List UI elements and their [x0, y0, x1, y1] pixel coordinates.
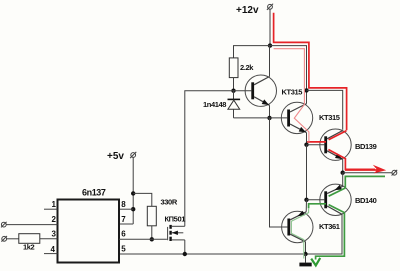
svg-text:1: 1 — [52, 200, 57, 209]
node Q1 emitter junction — [267, 116, 271, 120]
svg-text:KT315: KT315 — [282, 88, 303, 97]
node 330R to gate wire — [150, 237, 154, 241]
terminal +5v — [130, 152, 136, 158]
wire 330R bottom — [151, 226, 153, 240]
resistor R3 1k2 — [19, 234, 40, 244]
svg-text:2.2k: 2.2k — [240, 63, 254, 72]
wire drain vertical — [185, 91, 234, 227]
transistor Q3 BD139 — [320, 129, 351, 160]
wire BD139 emitter down — [342, 159, 344, 172]
svg-text:КП501: КП501 — [165, 215, 186, 224]
resistor R2 330R — [147, 206, 156, 226]
resistor R1 2.2k — [229, 58, 238, 78]
svg-text:330R: 330R — [161, 198, 178, 207]
node base junction — [231, 89, 235, 93]
wire to 330R top — [133, 193, 152, 206]
svg-text:+12v: +12v — [236, 5, 259, 16]
wire pin8 stub — [119, 208, 133, 210]
wire Q1 emitter down — [269, 105, 271, 118]
wire BD140 collector down to rail — [119, 214, 342, 254]
wire emitter row to Q2 base — [234, 117, 288, 119]
wire input B to 1k2 — [7, 238, 19, 240]
svg-text:KT315: KT315 — [319, 113, 340, 122]
svg-text:3: 3 — [52, 230, 57, 239]
svg-text:6: 6 — [121, 230, 126, 239]
svg-text:6n137: 6n137 — [82, 188, 106, 198]
terminal input A — [1, 222, 7, 228]
svg-text:+5v: +5v — [107, 151, 124, 162]
wire +12v rail left to 2.2k — [234, 46, 271, 58]
transistor Q4 BD140 — [320, 184, 351, 215]
wire base to BD139 — [307, 144, 325, 146]
arrow red output — [345, 165, 386, 174]
wire red current path thin via Q2 — [274, 49, 309, 142]
wire +5v down — [132, 157, 134, 224]
svg-text:BD139: BD139 — [355, 142, 377, 151]
node BD139 base junction — [304, 143, 308, 147]
node Q2 collector junction — [304, 88, 308, 92]
svg-text:5: 5 — [121, 245, 126, 254]
wire 2.2k bottom to base node — [233, 78, 235, 91]
node +5v to 330R — [131, 191, 135, 195]
terminal input B — [1, 236, 7, 242]
wire +12v rail right branch — [270, 46, 307, 91]
wire red current path main — [274, 13, 375, 170]
wire input A to pin2 — [6, 224, 57, 226]
svg-text:KT361: KT361 — [319, 222, 340, 231]
wire KT361 collector down — [305, 242, 307, 254]
svg-text:1k2: 1k2 — [23, 243, 35, 252]
wire pin7 — [119, 223, 133, 225]
wire Q1 collector up — [269, 46, 271, 77]
transistor Q5 KT361 — [282, 211, 313, 243]
wire green thin via KT361 — [291, 208, 308, 258]
wire pin6 gate — [119, 238, 167, 240]
wire down to BD140 base node — [306, 145, 308, 200]
svg-text:8: 8 — [121, 200, 126, 209]
ground — [299, 254, 311, 266]
mosfet Q6 KP501 — [168, 225, 185, 241]
node BD140 base junction — [304, 198, 308, 202]
transistor Q1 KT315 — [245, 75, 276, 106]
wire output — [343, 172, 392, 174]
wire KT361 emitter up — [305, 200, 307, 212]
node ground junction — [303, 252, 307, 256]
IC U1 6n137 — [58, 200, 120, 263]
node pin8 junction — [131, 207, 135, 211]
wire green return path — [309, 176, 385, 259]
wire +12v down to junction — [269, 9, 271, 45]
svg-text:7: 7 — [121, 215, 126, 224]
arrow green to ground — [311, 258, 320, 266]
wire BD140 base — [307, 199, 325, 201]
node +12v rail junction — [268, 43, 272, 47]
svg-text:2: 2 — [52, 215, 57, 224]
svg-text:1n4148: 1n4148 — [203, 100, 226, 109]
wire down to KT361 base — [270, 118, 288, 227]
svg-text:4: 4 — [51, 245, 56, 254]
node output junction — [341, 171, 345, 175]
svg-text:BD140: BD140 — [355, 196, 377, 205]
transistor Q2 KT315 — [281, 102, 312, 133]
wire Q2 emitter down — [306, 133, 308, 145]
wire 1k2 to pin3 — [40, 238, 58, 240]
terminal +12v — [267, 4, 273, 10]
diode D1 1n4148 — [228, 91, 241, 118]
wire source down — [184, 240, 186, 254]
wire BD140 emitter up — [342, 173, 344, 187]
node source junction — [183, 252, 187, 256]
wire base to Q1 — [234, 90, 252, 92]
wire Q2 collector up — [306, 90, 308, 103]
wire to BD139 collector — [307, 90, 343, 129]
terminal output — [392, 170, 398, 176]
